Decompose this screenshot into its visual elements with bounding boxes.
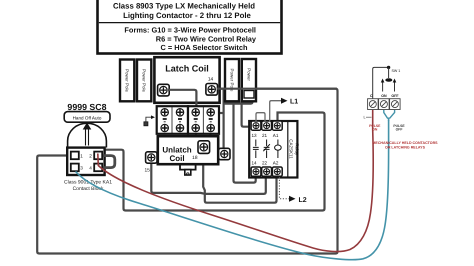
svg-text:1: 1 (80, 153, 83, 158)
svg-text:Forms: G10 = 3-Wire Power Pho: Forms: G10 = 3-Wire Power Photocell (124, 25, 256, 34)
selector switch dome and arrow (68, 123, 107, 148)
red wire: terminal 4 to C via bottom sweep (98, 110, 373, 252)
terminal strip block A (157, 106, 188, 134)
svg-text:ON: ON (372, 128, 378, 132)
wire W8 terminal strip B drops to unlatch 18 (196, 130, 200, 141)
svg-text:A2: A2 (273, 161, 279, 166)
jumper relay 13-21 (256, 113, 265, 122)
arrow marker into terminal strip A (144, 115, 155, 125)
SW1 junction dot (387, 66, 390, 69)
svg-text:Class 8903 Type LX Mechanicall: Class 8903 Type LX Mechanically Held (113, 1, 255, 10)
contact block terminal 4 (94, 164, 102, 172)
HOA switch SW1 C wire (373, 67, 389, 98)
svg-text:OFF: OFF (391, 94, 399, 98)
svg-text:14: 14 (208, 77, 214, 83)
latch coil left screw (158, 84, 170, 96)
contact block terminal numbers (80, 153, 92, 170)
wire W3 latch coil left screw to terminal strip B (168, 90, 196, 108)
power pole P2 (137, 60, 151, 102)
svg-text:18: 18 (192, 155, 198, 161)
svg-text:CA2SK11: CA2SK11 (289, 139, 294, 159)
terminal strip block B (188, 106, 219, 134)
selector switch nameplate (64, 112, 110, 123)
svg-text:C: C (370, 94, 373, 98)
SW1 ON arrow (382, 82, 384, 92)
power pole P3 (225, 59, 239, 101)
wire W4a branch to power pole 4 (224, 100, 253, 104)
relay bottom screws 14 22 A2 (251, 167, 282, 176)
relay coil A1-A2 (275, 140, 282, 159)
unlatch right screw (219, 148, 230, 159)
svg-text:21: 21 (262, 133, 268, 138)
svg-text:Latch Coil: Latch Coil (165, 64, 209, 74)
svg-text:Coil: Coil (169, 154, 184, 163)
contact block terminal 1 (71, 152, 79, 160)
svg-text:Lighting Contactor - 2 thru 12: Lighting Contactor - 2 thru 12 Pole (123, 11, 251, 20)
svg-text:R6 = Two Wire Control Relay: R6 = Two Wire Control Relay (156, 34, 257, 43)
contact block terminal 2 (94, 152, 102, 160)
svg-text:OFF: OFF (396, 128, 403, 132)
unlatch 15 screw (145, 152, 158, 174)
unlatch bottom tab (180, 165, 196, 175)
relay CA2SK11 body (249, 121, 299, 178)
L2 arrow (289, 196, 296, 202)
svg-text:L2: L2 (299, 197, 307, 204)
svg-text:9999 SC8: 9999 SC8 (67, 102, 106, 112)
relay top screws 13 21 A1 (251, 121, 282, 130)
power pole P4 (242, 59, 256, 101)
wire W7 unlatch 18 screw to relay A2 (203, 153, 276, 203)
svg-text:4: 4 (89, 165, 92, 170)
contact block Class 9001 KA1 (67, 148, 104, 175)
svg-text:OR LATCHING RELAYS: OR LATCHING RELAYS (385, 145, 426, 149)
title box (98, 0, 282, 54)
jumper terminals 2-4 (100, 156, 115, 168)
svg-text:Contact Block: Contact Block (73, 186, 104, 192)
svg-text:Relay: Relay (295, 143, 300, 155)
svg-text:2: 2 (89, 153, 92, 158)
power pole P1 (120, 60, 134, 102)
wire W6 unlatch 15 screw to relay 22 (151, 162, 265, 194)
wire W1 big loop: contact block terminal 1 to latch coil 14 (37, 89, 337, 254)
svg-text:22: 22 (262, 161, 268, 166)
L1 feed wire (270, 101, 282, 122)
latch coil box (154, 57, 219, 103)
wire W4b stub to strip screw (213, 112, 224, 114)
svg-text:L1: L1 (290, 98, 298, 105)
svg-text:SW 1: SW 1 (392, 69, 401, 73)
svg-text:15: 15 (145, 168, 151, 174)
svg-text:Hand Off Auto: Hand Off Auto (73, 116, 102, 121)
wire W4 latch 14 wire riser to unlatch right screw (223, 89, 225, 150)
svg-text:3: 3 (80, 165, 83, 170)
terminal strip screws (161, 109, 214, 132)
wire W2 A1 loop: contact block terminal 2 to relay A1 (103, 113, 325, 211)
svg-text:Power Pole: Power Pole (142, 69, 147, 93)
svg-text:L: L (364, 116, 366, 120)
latch coil right screw 14 (206, 84, 218, 96)
SW1 pivot (388, 67, 390, 78)
L2 dotted wire from A2 (279, 177, 289, 199)
svg-text:Power: Power (246, 68, 251, 81)
svg-text:14: 14 (252, 161, 258, 166)
wire W11 latch 14 to big loop (over poles) (217, 88, 337, 90)
wire W10 power pole 4 to relay 13 (242, 101, 251, 127)
blue Y split to ON and OFF (384, 110, 395, 121)
wire W5 power pole 3 to relay 14 (234, 101, 256, 183)
relay NO contact 13-14 (253, 140, 259, 159)
relay NC contact 21-22 (263, 140, 270, 159)
svg-text:ON: ON (381, 94, 387, 98)
L1 arrow (281, 98, 288, 104)
blue wire: terminal 3 to ON/OFF via bottom sweep (76, 120, 389, 260)
svg-text:Power Pole: Power Pole (125, 69, 130, 93)
SW1 OFF arrow (394, 82, 396, 92)
contact block terminal 3 (71, 164, 79, 172)
C ON OFF terminal block (368, 94, 401, 110)
svg-text:13: 13 (252, 133, 258, 138)
relay pin labels (252, 133, 279, 166)
clamp marks between rows (163, 118, 213, 121)
unlatch 18 screw (198, 141, 210, 154)
unlatch coil box (158, 136, 218, 164)
svg-text:C = HOA Selector Switch: C = HOA Selector Switch (161, 43, 248, 52)
svg-text:A1: A1 (273, 133, 279, 138)
